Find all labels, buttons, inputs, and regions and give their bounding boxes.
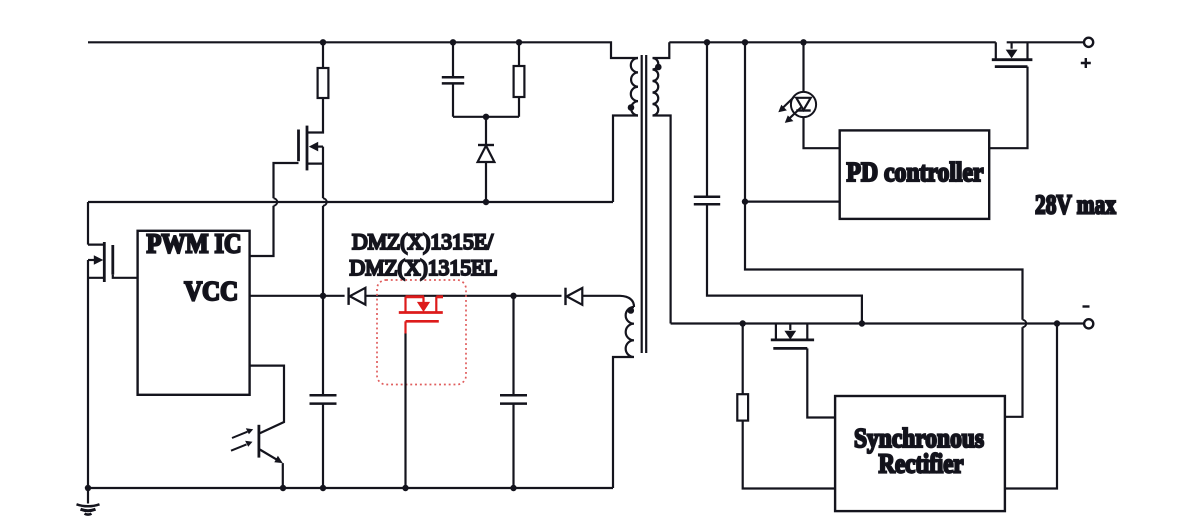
wire feedback sense from + rail — [745, 42, 840, 201]
node secondary polarity dot — [655, 64, 662, 71]
node primary polarity dot — [628, 104, 635, 111]
wire secondary - rail — [671, 322, 1085, 324]
node junction dots — [85, 39, 1060, 491]
node + output terminal — [1081, 38, 1093, 68]
label 28V max — [1035, 190, 1116, 220]
wire left bus lower to ground — [87, 260, 89, 488]
svg-text:PWM IC: PWM IC — [147, 228, 242, 258]
capacitor C3 (aux) — [500, 296, 527, 488]
label DMZ(X)1315EL — [350, 255, 498, 280]
label Synchronous — [854, 423, 984, 453]
svg-text:28V max: 28V max — [1035, 190, 1116, 220]
ground symbol — [77, 488, 100, 515]
wire left bus upper — [87, 202, 89, 245]
wire Q3 gate to bottom rail — [404, 334, 406, 489]
red dashed box DMZ device outline — [377, 280, 466, 385]
node - output terminal — [1083, 307, 1094, 329]
op-amp U3 Synchronous Rectifier box — [835, 396, 1005, 511]
diode D1 (clamp) — [478, 117, 495, 202]
transistor Q4 optocoupler phototransistor — [231, 366, 284, 488]
svg-text:Rectifier: Rectifier — [879, 449, 964, 479]
transistor Q1 startup MOSFET — [299, 126, 327, 296]
svg-text:PD controller: PD controller — [847, 157, 984, 187]
transformer T1 core — [642, 55, 647, 353]
wire VCC rail — [250, 295, 345, 297]
resistor R2 (snubber) — [514, 42, 525, 117]
label PD controller — [847, 157, 984, 187]
svg-text:VCC: VCC — [184, 276, 238, 306]
label Rectifier — [879, 449, 964, 479]
diode D2 (VCC left) — [349, 288, 562, 305]
transistor Q3 depletion MOSFET DMZ (red) — [399, 297, 443, 334]
transistor Q2 main switch MOSFET — [88, 242, 138, 282]
wire gate drive Q1 to PWM IC — [250, 163, 299, 256]
wire PD controller lower bus — [745, 202, 1026, 417]
wire primary return y202 — [88, 201, 613, 203]
transformer T1 secondary winding — [653, 42, 671, 323]
wire top HV rail — [88, 42, 638, 58]
op-amp U2 PD controller box — [840, 130, 990, 219]
op-amp U1 PWM IC box — [138, 231, 250, 395]
capacitor C4 (output) — [694, 42, 862, 323]
LED D4 optocoupler emitter — [778, 42, 839, 148]
wire primary bottom to node — [613, 116, 638, 203]
wire snubber bottom — [453, 116, 519, 118]
capacitor C1 (snubber) — [442, 42, 464, 117]
transistor Q5 load switch MOSFET — [989, 42, 1032, 148]
resistor R3 (sync) — [737, 324, 835, 489]
transistor Q6 sync rectifier MOSFET — [771, 324, 835, 418]
wire - rail to sync box — [1005, 324, 1057, 489]
label VCC pin — [184, 276, 238, 306]
label DMZ(X)1315E — [352, 229, 494, 254]
svg-text:DMZ(X)1315E/: DMZ(X)1315E/ — [352, 229, 494, 254]
svg-text:DMZ(X)1315EL: DMZ(X)1315EL — [350, 255, 498, 280]
resistor R1 (startup, from HV rail) — [307, 42, 328, 132]
label PWM IC — [147, 228, 242, 258]
wire ground rail bottom — [88, 487, 613, 489]
transformer T1 aux winding — [613, 307, 634, 488]
node aux polarity dot — [628, 307, 635, 314]
capacitor C2 (VCC) — [310, 296, 337, 488]
wire secondary + rail — [669, 41, 1084, 43]
transformer T1 primary winding — [631, 58, 638, 116]
diode D3 (VCC right) — [566, 288, 635, 307]
